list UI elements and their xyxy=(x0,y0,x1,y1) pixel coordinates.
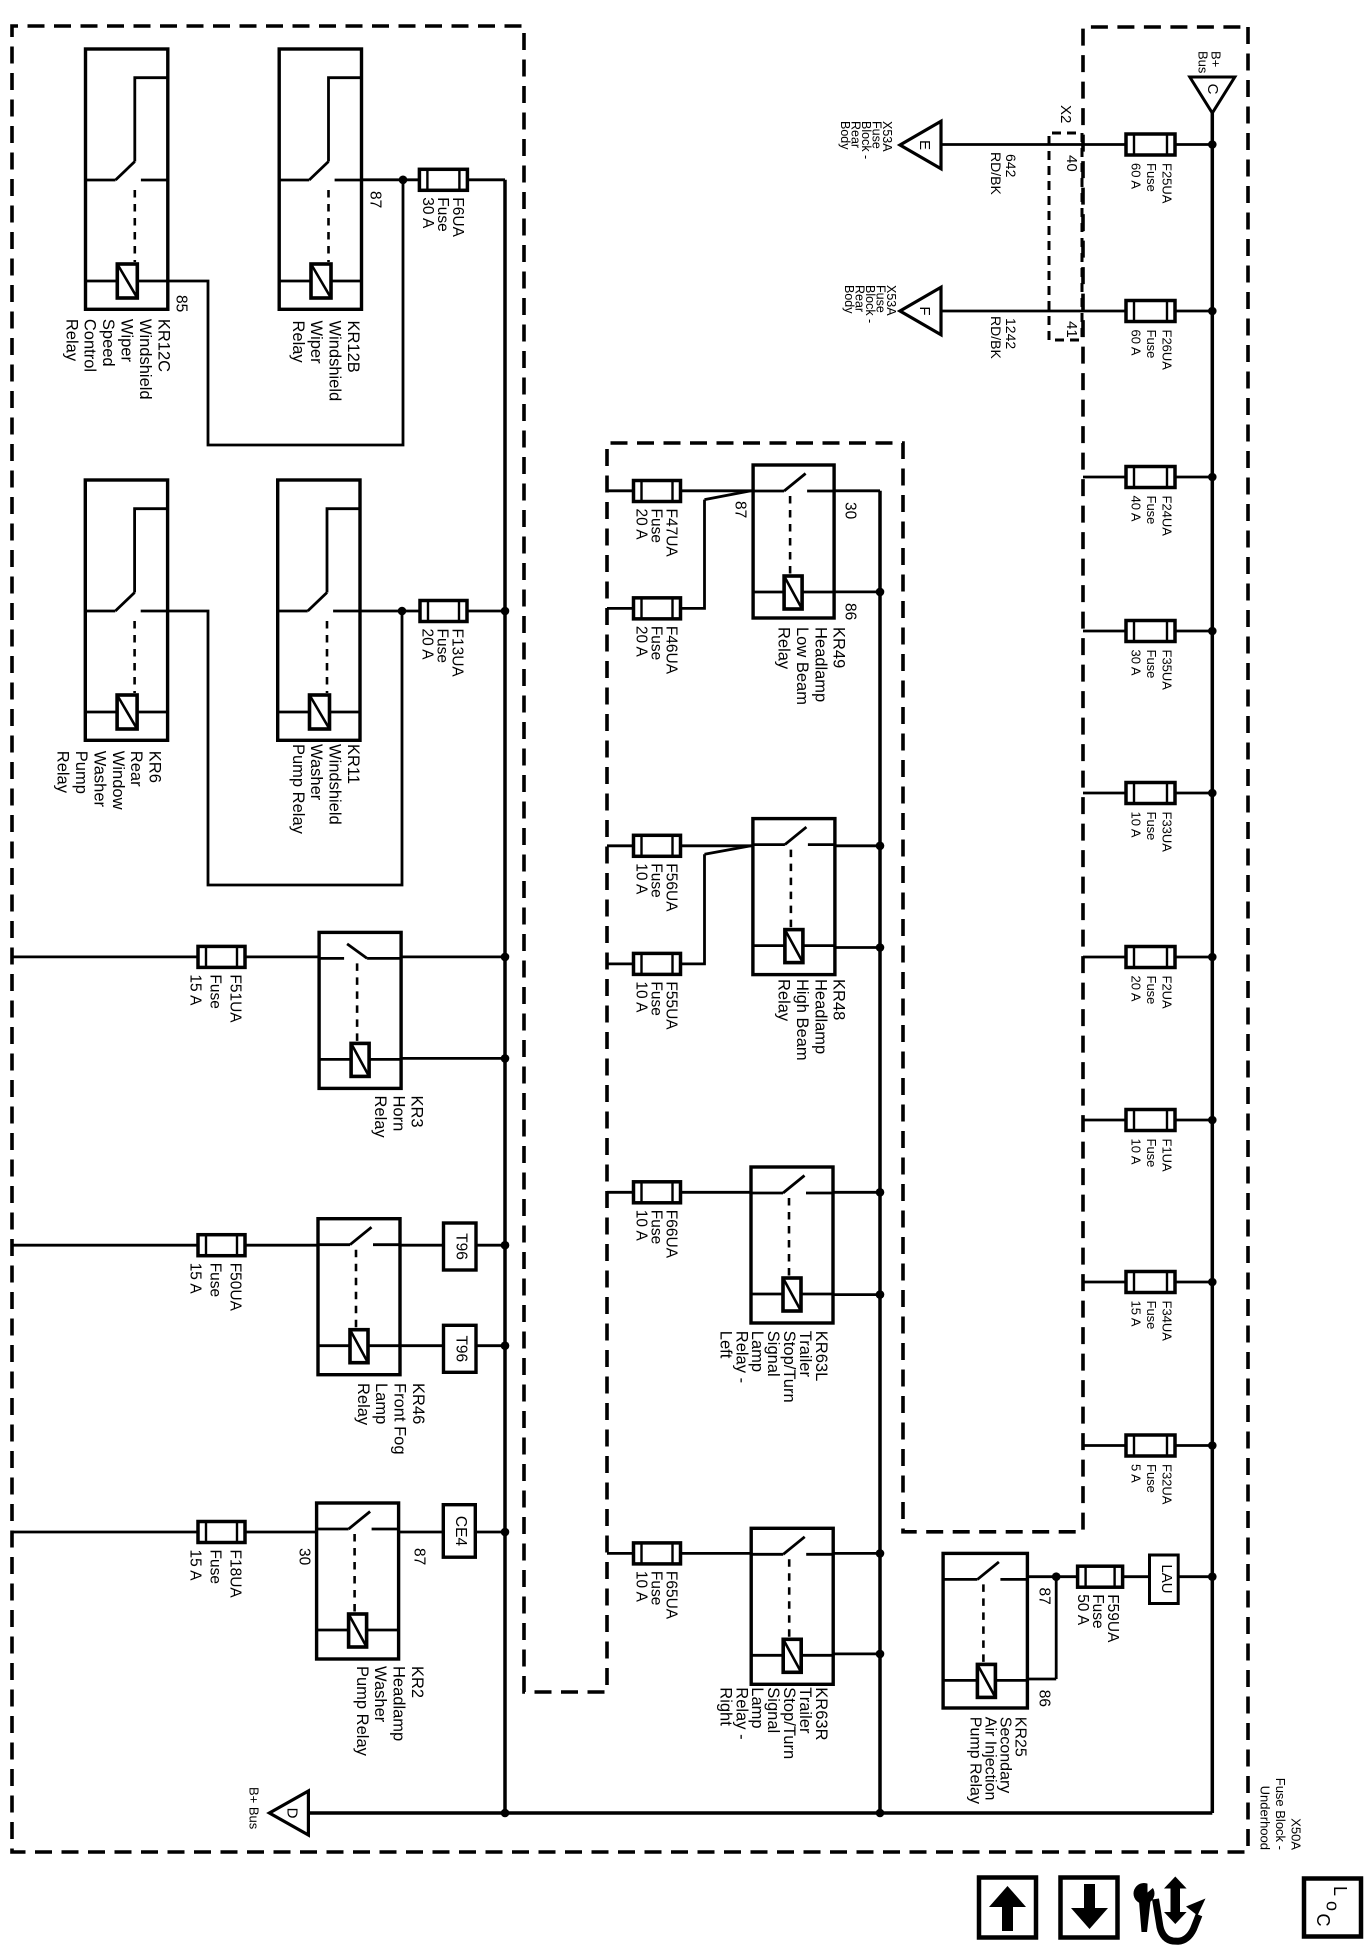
relay KR2 Headlamp Washer Pump Relay xyxy=(317,1503,399,1659)
fuse F55UA 10 A xyxy=(634,953,681,974)
wire KR3 pin87 to bus xyxy=(401,956,505,959)
relay KR12B Windshield Wiper Relay xyxy=(279,49,361,309)
connector T96 box 1 xyxy=(444,1223,477,1270)
node dot KR12B 87 xyxy=(399,176,408,185)
wire bus to fuse F13UA xyxy=(501,607,510,616)
wire middle B+ bus xyxy=(878,491,882,1813)
svg-text:L: L xyxy=(1330,1886,1350,1896)
fuse F26UA 60 A xyxy=(1208,307,1217,316)
fuse F2UA 20 A xyxy=(1208,953,1217,962)
wire F66UA to border xyxy=(607,1191,633,1194)
wire F18UA to border xyxy=(12,1531,198,1534)
wire F50UA to border xyxy=(12,1244,198,1247)
wire F59UA branch from bus xyxy=(1208,1572,1217,1581)
wire T96-2 to lower bus xyxy=(476,1344,505,1347)
fuse F18UA 15 A xyxy=(198,1522,245,1543)
wire KR63R pin87 to fuse F65UA xyxy=(680,1552,751,1555)
relay KR11 Windshield Washer Pump Relay xyxy=(278,480,360,740)
icon wrench with arrows xyxy=(1134,1883,1155,1904)
fuse F13UA 20 A xyxy=(420,601,467,622)
wire node to KR11 pin 87 xyxy=(360,610,402,613)
wire KR49 pin86 to bus xyxy=(834,591,880,594)
wire KR49 pin30 to bus xyxy=(834,489,880,492)
node dot KR11 87 xyxy=(398,607,407,616)
relay KR25 Secondary Air Injection Pump Relay xyxy=(943,1553,1027,1708)
wire F51UA to border xyxy=(12,956,198,959)
connector F X53A triangle xyxy=(900,287,941,335)
relay KR12C Windshield Wiper Speed Control Relay xyxy=(86,49,168,309)
wire F65UA to border xyxy=(607,1552,633,1555)
wire KR63L pin30 to bus xyxy=(833,1191,880,1194)
wire bus to fuse F6UA xyxy=(467,178,505,181)
fuse F59UA 50 A xyxy=(1078,1566,1123,1587)
wire CE4 to lower bus xyxy=(475,1531,505,1534)
wire F56UA to border xyxy=(607,844,633,847)
wire right drop to D xyxy=(308,1811,1212,1815)
connector LAU box xyxy=(1150,1555,1179,1604)
fuse F24UA 40 A xyxy=(1208,473,1217,482)
wire KR63R pin30 to bus xyxy=(833,1552,880,1555)
wire KR48 pin86 to bus xyxy=(835,946,880,949)
wire KR2 pin87 to CE4 xyxy=(399,1531,444,1534)
fuse F35UA 30 A xyxy=(1208,627,1217,636)
connector T96 box 2 xyxy=(444,1325,477,1372)
icon LOC box xyxy=(1304,1879,1361,1937)
wire T96 to lower bus xyxy=(476,1244,505,1247)
relay KR6 Rear Window Washer Pump Relay xyxy=(85,480,167,740)
relay KR48 Headlamp High Beam Relay xyxy=(753,819,835,975)
fuse F50UA 15 A xyxy=(198,1235,245,1256)
wire node to KR25 pin 87 xyxy=(1027,1575,1056,1578)
wire KR3 pin30 to fuse F51UA xyxy=(245,956,319,959)
wire KR49 pin87 to fuse F47UA xyxy=(680,489,753,492)
wire KR48 pin87 to fuse F56UA xyxy=(680,844,753,847)
wire F46UA join to KR49 pin87 xyxy=(681,500,705,609)
wire KR46 pin87 to T96 xyxy=(400,1244,444,1247)
relay KR46 Front Fog Lamp Relay xyxy=(318,1219,400,1375)
wire F13UA to node xyxy=(402,610,420,613)
node dot KR25 87/86 xyxy=(1052,1572,1061,1581)
wire KR63R pin86 to bus xyxy=(833,1653,880,1656)
svg-text:C: C xyxy=(1313,1914,1333,1927)
wire KR3 pin86 to bus xyxy=(401,1057,505,1060)
wire KR46 pin86 to T96 xyxy=(400,1344,444,1347)
wire KR12C pin85 to node xyxy=(168,180,403,445)
fuse F47UA 20 A xyxy=(634,481,681,502)
fuse F51UA 15 A xyxy=(198,946,245,967)
wire KR6 pin87 to node xyxy=(168,611,402,885)
connector D B+ Bus triangle xyxy=(269,1791,308,1835)
connector C B+ Bus triangle xyxy=(1190,77,1235,113)
wire lower B+ bus xyxy=(503,180,507,1813)
relay KR49 Headlamp Low Beam Relay xyxy=(753,465,834,618)
relay KR63R Trailer Stop/Turn Signal Lamp Relay - Right xyxy=(751,1528,833,1684)
wire F55UA to border xyxy=(607,963,633,966)
fuse F25UA 60 A xyxy=(1208,140,1217,149)
node dot bus2/D-drop xyxy=(501,1809,510,1818)
fuse F34UA 15 A xyxy=(1208,1278,1217,1287)
wire KR63L pin86 to bus xyxy=(833,1293,880,1296)
connector X2 dashed box xyxy=(1049,133,1082,340)
wire B+ bus top xyxy=(1211,113,1215,1813)
wire node to KR25 pin 86 xyxy=(1055,1577,1058,1679)
fuse F66UA 10 A xyxy=(634,1182,681,1203)
fuse F65UA 10 A xyxy=(634,1543,681,1564)
icon next page (down arrow) xyxy=(1061,1878,1118,1938)
wire F46UA to border xyxy=(607,607,633,610)
fuse F33UA 10 A xyxy=(1208,789,1217,798)
wire F47UA to border xyxy=(607,489,633,492)
wire KR48 pin30 to bus xyxy=(835,844,880,847)
wire LAU to fuse F59UA xyxy=(1123,1575,1150,1578)
node dot bus3/D-drop xyxy=(876,1809,885,1818)
icon previous page (up arrow) xyxy=(979,1878,1036,1938)
wire KR2 pin30 to fuse F18UA xyxy=(245,1531,317,1534)
fuse F32UA 5 A xyxy=(1208,1441,1217,1450)
wire KR46 pin30 to fuse F50UA xyxy=(245,1244,318,1247)
fuse F1UA 10 A xyxy=(1208,1116,1217,1125)
wire F6UA to node 87 xyxy=(403,178,419,181)
fuse F6UA 30 A xyxy=(419,169,467,190)
wire KR63L pin87 to fuse F66UA xyxy=(680,1191,751,1194)
wire F55UA join to KR48 pin87 xyxy=(681,854,705,964)
svg-text:o: o xyxy=(1323,1901,1343,1911)
wire fuse F59UA to node xyxy=(1056,1575,1077,1578)
relay KR3 Horn Relay xyxy=(319,932,401,1088)
relay KR63L Trailer Stop/Turn Signal Lamp Relay - Left xyxy=(751,1167,833,1323)
fuse F46UA 20 A xyxy=(634,598,681,619)
fuse F56UA 10 A xyxy=(634,835,681,856)
wire node to KR12B pin 87 xyxy=(362,178,404,181)
connector E X53A triangle xyxy=(900,121,941,169)
connector CE4 box xyxy=(443,1505,475,1558)
